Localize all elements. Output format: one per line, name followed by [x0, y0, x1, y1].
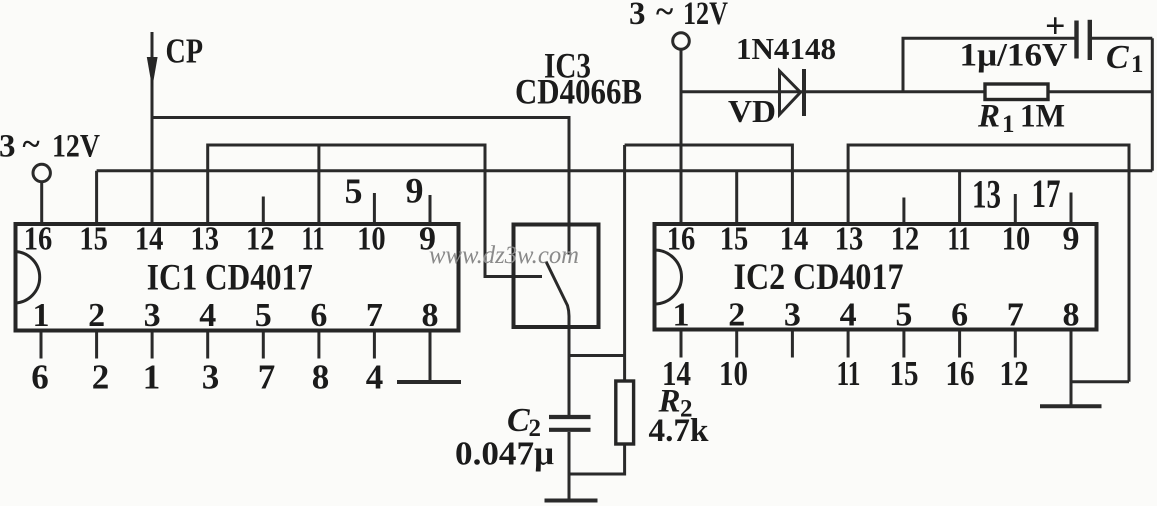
svg-text:8: 8: [422, 297, 439, 334]
svg-text:1: 1: [1002, 111, 1015, 138]
svg-text:12: 12: [891, 221, 920, 258]
svg-text:7: 7: [366, 297, 383, 334]
svg-text:10: 10: [719, 354, 748, 393]
svg-text:7: 7: [1007, 297, 1024, 334]
svg-text:C: C: [507, 402, 530, 439]
svg-text:17: 17: [1032, 171, 1061, 216]
svg-text:12V: 12V: [52, 129, 100, 165]
svg-text:12: 12: [1000, 354, 1029, 393]
svg-text:13: 13: [190, 221, 219, 258]
svg-text:~: ~: [656, 0, 673, 30]
svg-text:11: 11: [948, 221, 971, 258]
svg-text:1: 1: [33, 297, 50, 334]
svg-text:4.7k: 4.7k: [649, 413, 710, 449]
svg-text:11: 11: [302, 221, 325, 258]
svg-text:7: 7: [258, 358, 276, 397]
svg-text:5: 5: [345, 171, 363, 211]
svg-text:15: 15: [890, 354, 919, 393]
svg-text:3: 3: [144, 297, 161, 334]
svg-text:6: 6: [31, 358, 49, 397]
svg-text:2: 2: [728, 297, 745, 334]
svg-text:C: C: [1106, 39, 1129, 76]
svg-text:12V: 12V: [683, 0, 728, 32]
svg-text:R: R: [977, 99, 1000, 135]
svg-text:1: 1: [1131, 51, 1144, 78]
svg-text:~: ~: [23, 127, 40, 163]
svg-text:5: 5: [255, 297, 272, 334]
svg-text:1N4148: 1N4148: [736, 31, 836, 66]
svg-text:10: 10: [357, 221, 386, 258]
svg-text:12: 12: [246, 221, 275, 258]
svg-text:8: 8: [1063, 297, 1080, 334]
svg-text:1: 1: [673, 297, 690, 334]
svg-text:3: 3: [202, 358, 220, 397]
svg-text:5: 5: [895, 297, 912, 334]
svg-text:10: 10: [1002, 221, 1031, 258]
svg-text:3: 3: [0, 129, 16, 165]
svg-text:9: 9: [406, 171, 424, 211]
svg-text:IC1 CD4017: IC1 CD4017: [147, 258, 313, 299]
svg-text:9: 9: [1063, 221, 1080, 258]
svg-text:13: 13: [835, 221, 864, 258]
svg-text:13: 13: [972, 172, 1001, 217]
svg-text:14: 14: [780, 221, 809, 258]
svg-text:1M: 1M: [1020, 99, 1065, 135]
svg-text:CD4066B: CD4066B: [515, 72, 642, 112]
svg-text:16: 16: [946, 354, 975, 393]
svg-text:16: 16: [667, 221, 696, 258]
svg-text:2: 2: [92, 358, 110, 397]
svg-text:6: 6: [310, 297, 327, 334]
svg-text:0.047μ: 0.047μ: [455, 436, 554, 473]
svg-text:15: 15: [720, 221, 749, 258]
svg-text:3: 3: [629, 0, 646, 32]
svg-text:2: 2: [88, 297, 105, 334]
svg-text:4: 4: [840, 297, 857, 334]
svg-text:1: 1: [143, 358, 161, 397]
svg-text:16: 16: [24, 221, 53, 258]
svg-text:15: 15: [79, 221, 108, 258]
svg-text:CP: CP: [166, 32, 204, 71]
svg-text:4: 4: [199, 297, 216, 334]
svg-text:11: 11: [837, 354, 861, 393]
svg-text:6: 6: [951, 297, 968, 334]
svg-text:4: 4: [366, 358, 384, 397]
svg-text:14: 14: [135, 221, 164, 258]
svg-text:www.dz3w.com: www.dz3w.com: [429, 242, 579, 269]
svg-text:VD: VD: [728, 93, 776, 129]
svg-text:3: 3: [784, 297, 801, 334]
svg-text:IC2 CD4017: IC2 CD4017: [734, 257, 904, 298]
svg-text:1μ/16V: 1μ/16V: [960, 38, 1068, 74]
svg-text:8: 8: [312, 358, 330, 397]
